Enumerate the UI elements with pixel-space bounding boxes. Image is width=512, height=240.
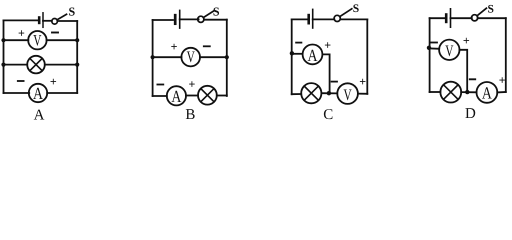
wire: D ammeter to bottom-right corner: [497, 91, 506, 93]
svg-text:+: +: [18, 26, 25, 40]
voltmeter V (circuit A): [28, 31, 46, 49]
voltmeter V (circuit C): [337, 83, 358, 104]
wire: C bottom from left corner to lamp: [292, 93, 302, 95]
svg-text:A: A: [308, 46, 319, 65]
wire: B lamp to bottom-right corner: [217, 95, 227, 97]
svg-text:A: A: [482, 84, 493, 103]
svg-text:D: D: [465, 106, 476, 122]
polarity - (B ammeter left): [157, 84, 163, 86]
wire: D battery to switch pivot: [451, 17, 472, 19]
wire: C ammeter branch from left dot: [292, 53, 303, 55]
switch S (circuit A): pivot circle and open lever: [52, 14, 67, 24]
svg-text:V: V: [33, 32, 42, 49]
wire: D bottom from left corner to lamp: [430, 91, 441, 93]
wire: A left rail: [3, 20, 5, 93]
junction dot D bottom (lamp/ammeter node): [465, 90, 469, 94]
svg-text:+: +: [171, 40, 178, 54]
wire: A from switch contact to top-right corner: [57, 20, 77, 22]
ammeter A (circuit D): [477, 82, 498, 103]
wire: B voltmeter branch left: [153, 56, 182, 58]
svg-text:A: A: [171, 87, 182, 106]
wire: D right rail: [505, 18, 507, 92]
wire: B left rail: [152, 20, 154, 96]
junction dot B-V right: [225, 55, 229, 59]
svg-text:V: V: [187, 49, 196, 66]
switch S (circuit B): [198, 11, 215, 23]
junction dot A-V left: [1, 38, 5, 42]
svg-text:V: V: [344, 87, 353, 104]
svg-text:+: +: [499, 73, 506, 87]
wire: B from switch to top-right corner: [204, 19, 227, 21]
polarity - (D ammeter left): [470, 78, 475, 80]
voltmeter V (circuit B): [181, 48, 200, 67]
wire: B ammeter to lamp: [186, 95, 198, 97]
svg-text:S: S: [69, 4, 76, 18]
junction dot A-lamp left: [1, 63, 5, 67]
svg-text:+: +: [324, 38, 331, 52]
wire: B right rail: [226, 20, 228, 96]
wire: D left rail: [429, 18, 431, 92]
wire: A bottom left to ammeter: [4, 92, 30, 94]
svg-text:C: C: [323, 107, 333, 123]
polarity - (B voltmeter right): [204, 45, 210, 47]
switch S (circuit D): [472, 8, 487, 21]
ammeter A (circuit C): [303, 45, 323, 65]
svg-text:A: A: [33, 84, 44, 103]
wire: C from switch to top-right corner: [341, 18, 367, 20]
polarity - (D voltmeter left): [431, 42, 437, 44]
svg-text:+: +: [359, 74, 366, 88]
polarity - (A ammeter left): [18, 80, 24, 82]
wire: B battery to switch pivot: [180, 18, 199, 20]
ammeter A (circuit B): [167, 86, 186, 106]
junction dot D left (voltmeter tap): [427, 46, 431, 50]
wire: C top from left corner to battery: [292, 18, 308, 20]
wire: B voltmeter branch right: [200, 56, 227, 58]
svg-text:S: S: [488, 4, 494, 16]
wire: D voltmeter right then down to bottom junction: [460, 50, 468, 92]
lamp (circuit C): [301, 83, 321, 103]
battery D (short thick plate = left, tall thin plate = right): [446, 9, 450, 27]
junction dot A-lamp right: [75, 63, 79, 67]
polarity - (C ammeter left): [296, 42, 301, 44]
battery B: [175, 10, 180, 28]
wire: C left rail: [291, 19, 293, 94]
svg-text:A: A: [34, 108, 45, 124]
svg-text:S: S: [213, 4, 220, 18]
lamp (circuit B): [198, 86, 217, 105]
wire: A voltmeter branch left: [4, 39, 29, 41]
wire: A lamp branch left: [4, 64, 28, 66]
wire: D from switch to top-right corner: [478, 17, 506, 19]
lamp (circuit D): [440, 82, 461, 103]
junction dot C bottom (lamp/voltmeter node): [327, 91, 331, 95]
polarity - (C voltmeter left): [332, 81, 337, 83]
svg-text:+: +: [50, 75, 57, 89]
svg-text:S: S: [353, 3, 359, 15]
wire: C ammeter right then down to bottom junction: [322, 54, 329, 93]
polarity - (A voltmeter right): [52, 32, 58, 34]
wire: C voltmeter to bottom-right corner: [358, 93, 367, 95]
svg-text:+: +: [189, 77, 196, 91]
wire: C right rail: [366, 19, 368, 93]
junction dot B-V left: [151, 55, 155, 59]
voltmeter V (circuit D): [439, 40, 459, 61]
wire: B top from left corner to battery: [153, 19, 173, 21]
lamp (circuit A): [27, 56, 45, 74]
junction dot C left (ammeter tap): [290, 51, 294, 55]
wire: B bottom left to ammeter: [153, 95, 167, 97]
wire: A voltmeter branch right: [47, 39, 78, 41]
wire: A top from left corner to battery: [4, 19, 39, 21]
wire: A battery to switch pivot: [43, 20, 52, 22]
wire: A bottom ammeter to right corner: [47, 92, 77, 94]
wire: D voltmeter branch from left dot: [429, 47, 439, 49]
battery C (short thick plate = left, tall thin plate = right): [309, 9, 313, 28]
wire: D top from left corner to battery: [430, 17, 446, 19]
svg-text:+: +: [463, 34, 470, 48]
switch S (circuit C): [334, 9, 352, 22]
svg-text:V: V: [445, 43, 454, 60]
wire: A right rail: [76, 21, 78, 93]
junction dot A-V right: [75, 38, 79, 42]
wire: C battery to switch pivot: [313, 18, 335, 20]
svg-text:B: B: [185, 107, 195, 123]
wire: D lamp to ammeter: [461, 91, 476, 93]
ammeter A (circuit A): [29, 84, 47, 103]
wire: A lamp branch right: [45, 64, 77, 66]
wire: C lamp to voltmeter: [321, 92, 337, 94]
battery A (short thick plate = left, tall thin plate = right): [39, 13, 43, 27]
